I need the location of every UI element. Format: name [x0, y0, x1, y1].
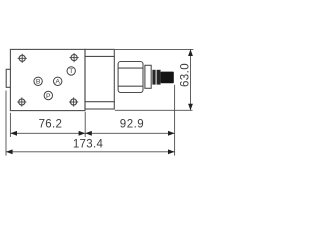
locknut	[145, 65, 151, 88]
svg-text:T: T	[69, 68, 73, 75]
knob collar ridge 1	[152, 70, 155, 85]
port P	[44, 91, 52, 100]
ext line plate/valve junction	[84, 112, 86, 137]
dimension 92.9	[85, 119, 174, 136]
extension lines	[6, 49, 193, 155]
ext line top (63.0)	[115, 48, 193, 50]
hex cap chamfer line lower	[118, 85, 143, 87]
dimension 63.0 (vertical)	[179, 49, 193, 110]
svg-text:76.2: 76.2	[39, 118, 63, 130]
port B	[34, 77, 42, 85]
port A	[54, 77, 62, 85]
valve top flange line	[85, 55, 114, 57]
dimension 76.2	[10, 118, 85, 135]
valve bottom flange line	[85, 101, 114, 103]
mounting hole bottom-right	[69, 97, 78, 106]
knob collar ridge 2	[157, 70, 161, 85]
mounting hole top-right	[70, 53, 79, 62]
svg-text:63.0: 63.0	[179, 63, 191, 87]
ext line from tab left face	[5, 91, 7, 156]
adjustment knob (black)	[161, 72, 174, 84]
valve body (side view)	[85, 49, 114, 109]
ext line bottom (63.0)	[115, 109, 193, 111]
mounting hole bottom-left	[17, 97, 26, 106]
hex cap chamfer line upper	[118, 67, 143, 69]
ext line from plate left edge	[9, 113, 11, 137]
svg-text:A: A	[55, 79, 60, 86]
subplate body (front view)	[10, 49, 85, 110]
svg-text:92.9: 92.9	[120, 119, 144, 131]
svg-text:P: P	[46, 93, 51, 100]
port T	[67, 67, 75, 75]
svg-text:173.4: 173.4	[73, 138, 104, 150]
mounting hole top-left	[18, 54, 27, 63]
svg-text:B: B	[36, 79, 41, 86]
left locating tab	[6, 69, 10, 87]
ext line from knob right face	[174, 85, 176, 156]
dimension 173.4	[6, 138, 175, 154]
hex adjustment cap	[118, 62, 143, 93]
